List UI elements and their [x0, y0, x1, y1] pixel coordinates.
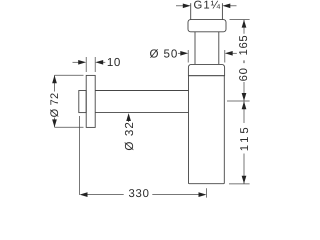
dimension O72 : extension and dimension lines — [55, 74, 84, 76]
svg-text:Ø 72: Ø 72 — [49, 93, 61, 118]
arrowheads 330 — [80, 192, 88, 197]
horizontal outlet pipe — [95, 90, 188, 92]
arrowheads 60-165 — [242, 20, 247, 28]
adjustable tube below nut — [194, 32, 196, 65]
dimension 10 : lines and ticks — [73, 61, 80, 63]
arrowheads O50 — [180, 51, 188, 56]
slip nut — [188, 20, 226, 32]
arrowheads 115 — [242, 101, 247, 109]
wall flange (rosette) — [86, 75, 95, 127]
svg-text:G1¼: G1¼ — [194, 0, 222, 12]
dimension O50 : lines — [178, 52, 181, 54]
arrowheads O72 — [52, 75, 57, 83]
svg-text:Ø 32: Ø 32 — [123, 121, 136, 151]
dimension 115 : dimension lines and bottom extension — [243, 101, 245, 123]
dimension G1 1/4 : lines — [176, 5, 183, 7]
svg-text:115: 115 — [239, 124, 251, 151]
wall-side pipe stub — [79, 91, 86, 113]
trap cup body — [189, 76, 225, 184]
svg-text:60 - 165: 60 - 165 — [238, 35, 250, 82]
svg-text:Ø 50: Ø 50 — [149, 47, 178, 60]
svg-text:330: 330 — [128, 188, 149, 200]
trap cup cap — [188, 64, 224, 75]
arrowheads 10 — [78, 60, 86, 65]
dimension 330 : extension line, dimension line, axis tick — [78, 116, 80, 195]
svg-text:10: 10 — [107, 56, 121, 69]
dimension O32 : leader stem — [128, 120, 130, 123]
vertical inlet pipe (G1 1/4 thread) with extension lines — [190, 3, 192, 19]
arrowheads G1 1/4 — [183, 3, 191, 8]
arrowhead O32 — [126, 113, 131, 121]
dimension 60-165 : extension and dimension lines — [230, 19, 250, 21]
